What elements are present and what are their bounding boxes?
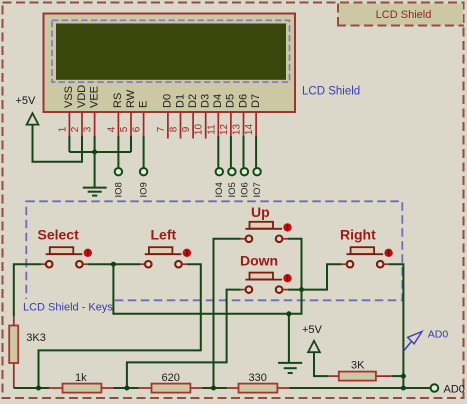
junction node C — [211, 386, 216, 391]
svg-text:5: 5 — [119, 126, 130, 132]
svg-text:D2: D2 — [187, 94, 199, 108]
svg-text:Down: Down — [240, 253, 278, 269]
svg-text:Right: Right — [340, 227, 376, 243]
svg-text:D6: D6 — [237, 94, 249, 108]
pin 10 (D3) — [194, 113, 206, 139]
net label AD0 (blue arrow) — [403, 329, 449, 353]
resistor 330 — [227, 372, 290, 393]
junction Select/Left — [111, 262, 116, 267]
bus wire segment C — [202, 387, 227, 389]
svg-text:IO4: IO4 — [214, 182, 225, 197]
junction ground node — [286, 311, 291, 316]
wire pin3 to ground — [94, 152, 96, 187]
terminal IO7 — [252, 168, 263, 198]
svg-text:RS: RS — [112, 93, 124, 108]
button Down — [240, 253, 292, 293]
wire +5V to R 3K left — [314, 353, 329, 376]
wire Down.left to bus node B — [127, 290, 241, 388]
svg-text:13: 13 — [232, 124, 243, 136]
terminal IO4 — [214, 168, 225, 198]
wire +5V to pin 2 — [33, 125, 83, 161]
junction bus/AD0 — [401, 386, 406, 391]
junction node D — [36, 386, 41, 391]
bus wire left segment — [14, 387, 49, 389]
svg-text:IO6: IO6 — [239, 182, 250, 197]
svg-text:3K: 3K — [351, 360, 365, 372]
svg-text:+5V: +5V — [302, 324, 323, 336]
pin 2 (VDD) — [70, 113, 82, 162]
pin 13 (D6) — [232, 113, 244, 168]
pin 9 (D2) — [181, 113, 193, 139]
svg-text:6: 6 — [132, 126, 143, 132]
wire Select.right to Left.left — [88, 263, 140, 265]
wire Up.right down to Down.right — [288, 239, 302, 290]
svg-text:E: E — [137, 101, 149, 108]
LCD module body — [44, 14, 296, 113]
terminal IO9 — [139, 168, 150, 198]
button Up — [241, 204, 292, 242]
wire Right.right down to bus — [389, 264, 404, 388]
ground (under LCD) — [83, 188, 107, 196]
ground (keys area) — [278, 363, 302, 373]
wire common to ground — [289, 290, 302, 363]
+5V power symbol (top left) — [16, 95, 39, 125]
svg-text:IO8: IO8 — [113, 182, 124, 197]
wire Left.right to bus node D — [39, 264, 201, 388]
button Left — [140, 227, 191, 268]
junction Up/Down/Right common — [299, 287, 304, 292]
svg-text:LCD Shield: LCD Shield — [376, 9, 432, 21]
svg-text:Up: Up — [251, 204, 270, 220]
terminal IO8 — [113, 168, 124, 198]
svg-text:10: 10 — [194, 124, 205, 136]
wire pin5 bend — [130, 151, 132, 153]
terminal IO6 — [239, 168, 250, 198]
svg-text:VDD: VDD — [76, 85, 88, 108]
svg-text:D1: D1 — [174, 94, 186, 108]
resistor 3K3 (vertical) — [9, 316, 46, 388]
sheet header box "LCD Shield" — [337, 4, 464, 26]
pin 8 (D1) — [169, 113, 181, 139]
wire Up.left to bus node C — [214, 239, 241, 388]
svg-text:D0: D0 — [162, 94, 174, 108]
svg-text:12: 12 — [219, 124, 230, 136]
terminal IO5 — [227, 168, 238, 198]
resistor 3K — [329, 360, 392, 381]
svg-text:Left: Left — [151, 227, 177, 243]
bus wire segment right — [290, 387, 431, 389]
pin 12 (D5) — [219, 113, 231, 168]
wire Down.right to Right.left — [288, 264, 342, 289]
svg-text:LCD Shield: LCD Shield — [302, 86, 360, 98]
pin 7 (D0) — [156, 113, 168, 139]
wire junction to ground node — [113, 264, 289, 314]
pin 11 (D4) — [206, 113, 218, 168]
wire Select.left to R 3K3 top — [14, 264, 41, 316]
junction pin3/gnd — [92, 150, 97, 155]
svg-text:330: 330 — [249, 372, 267, 384]
svg-text:3: 3 — [83, 126, 94, 132]
pin 6 (E) — [132, 113, 144, 168]
wire 3K right to AD0 net — [392, 375, 404, 377]
svg-text:4: 4 — [106, 126, 117, 132]
svg-text:2: 2 — [70, 126, 81, 132]
svg-text:D3: D3 — [200, 94, 212, 108]
junction node B — [124, 386, 129, 391]
svg-text:D5: D5 — [225, 94, 237, 108]
wire pins 1-3-5 (gnd rail) — [69, 151, 131, 153]
resistor 1k — [49, 372, 113, 393]
svg-text:3K3: 3K3 — [26, 332, 46, 344]
bus wire segment B — [113, 387, 138, 389]
svg-text:AD0: AD0 — [444, 384, 465, 396]
svg-text:+5V: +5V — [16, 95, 37, 107]
pin 3 (VEE) — [83, 113, 95, 153]
svg-text:11: 11 — [206, 124, 217, 135]
svg-text:RW: RW — [125, 89, 137, 108]
svg-text:1: 1 — [57, 126, 68, 132]
svg-text:AD0: AD0 — [428, 329, 449, 341]
+5V power symbol (bottom) — [302, 324, 323, 352]
LCD pin names VSS VDD VEE RS RW E D0-D7 — [63, 85, 262, 108]
terminal AD0 — [431, 384, 465, 396]
svg-text:Select: Select — [38, 227, 80, 243]
svg-text:D4: D4 — [212, 94, 224, 108]
button Select — [38, 227, 93, 268]
pin 4 (RS) — [106, 113, 118, 168]
junction 3K/AD0 — [401, 374, 406, 379]
svg-text:LCD Shield - Keys: LCD Shield - Keys — [23, 302, 113, 314]
svg-text:8: 8 — [169, 126, 180, 132]
svg-text:9: 9 — [181, 126, 192, 132]
svg-text:620: 620 — [162, 372, 180, 384]
label LCD Shield - Keys — [22, 299, 113, 314]
button Right — [340, 227, 393, 268]
svg-text:VEE: VEE — [88, 86, 100, 108]
svg-text:D7: D7 — [250, 94, 262, 108]
svg-text:VSS: VSS — [63, 86, 75, 108]
svg-text:IO7: IO7 — [252, 182, 263, 197]
pin 1 (VSS) — [57, 113, 69, 153]
svg-text:14: 14 — [244, 124, 255, 136]
pin 14 (D7) — [244, 113, 256, 168]
svg-text:IO9: IO9 — [139, 182, 150, 197]
keys boundary box — [26, 201, 402, 300]
svg-text:1k: 1k — [75, 372, 87, 384]
svg-text:7: 7 — [156, 126, 167, 132]
resistor 620 — [139, 372, 203, 393]
pin 5 (RW) — [119, 113, 131, 153]
svg-text:IO5: IO5 — [227, 182, 238, 197]
